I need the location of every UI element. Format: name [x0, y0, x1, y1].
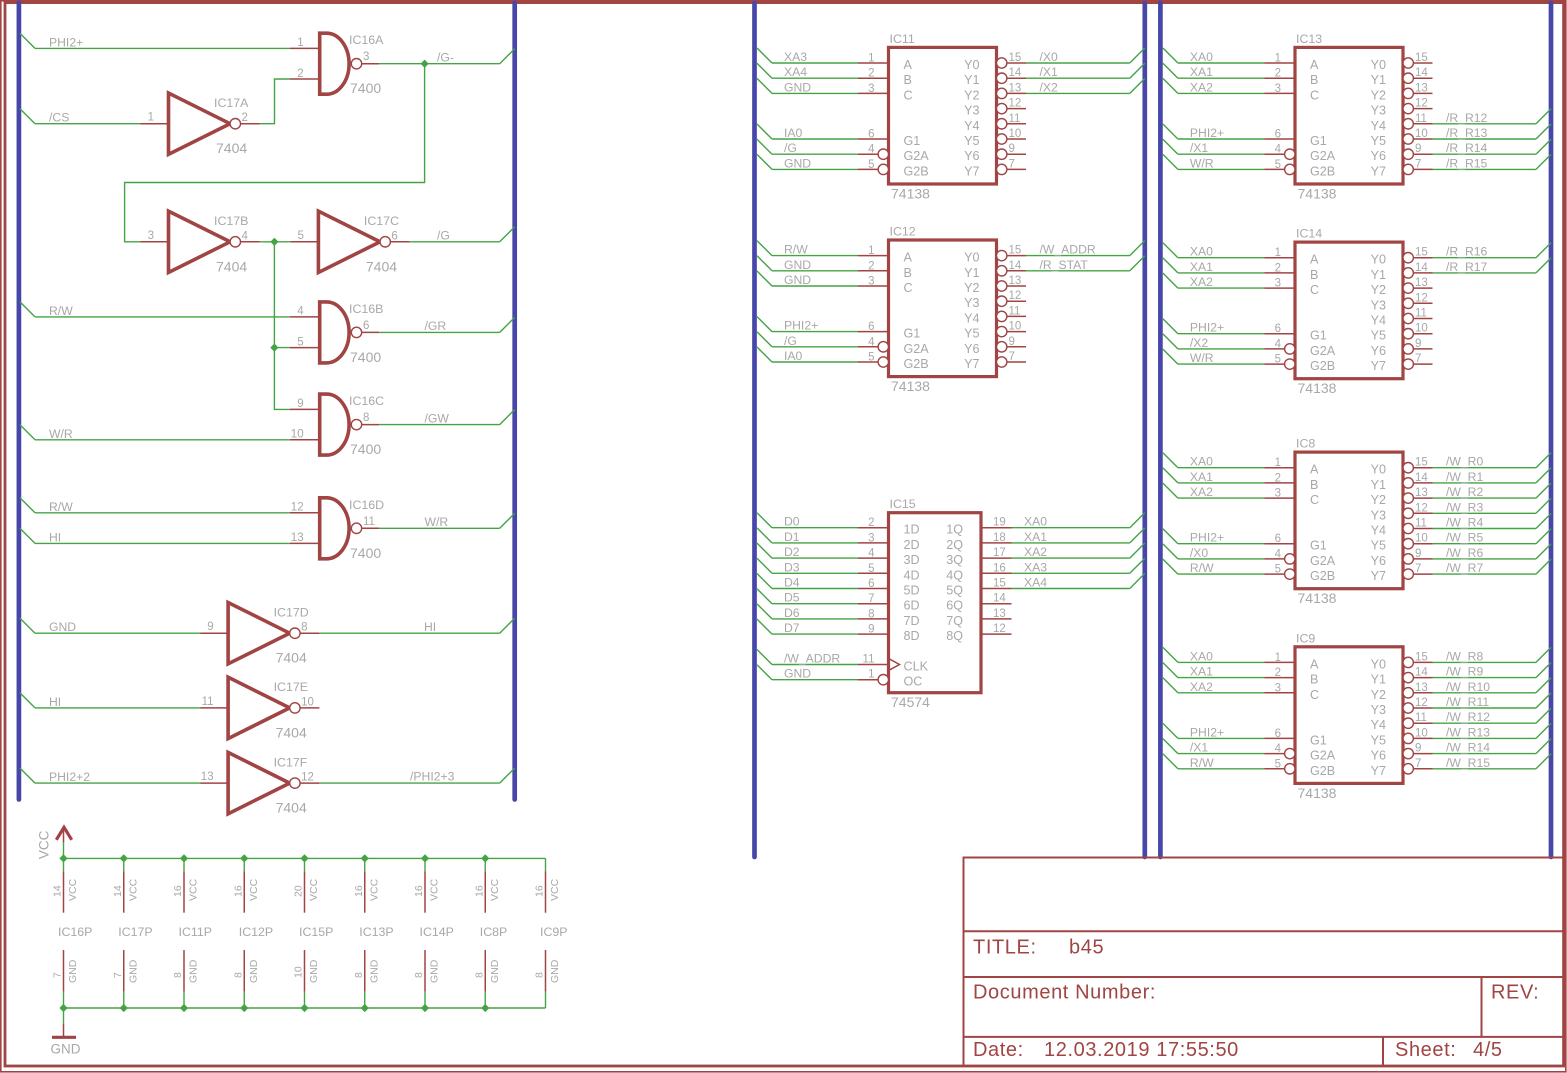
- svg-text:13: 13: [1009, 275, 1022, 287]
- IC16A pin 2: [290, 78, 320, 80]
- svg-text:10: 10: [1415, 128, 1428, 140]
- svg-text:7: 7: [1415, 158, 1421, 170]
- svg-text:GND: GND: [784, 156, 811, 170]
- IC12 pin 10 (Y5): [997, 326, 1007, 336]
- svg-text:8: 8: [413, 972, 425, 978]
- IC9 pin 10 (Y5): [1403, 733, 1413, 743]
- svg-text:9: 9: [1415, 743, 1421, 755]
- junction IC8P on VCC rail: [481, 854, 489, 862]
- junction IC15P on VCC rail: [300, 854, 308, 862]
- IC17B pin 4 (output): [241, 241, 260, 243]
- NAND gate IC16D (7400): [320, 498, 349, 559]
- svg-text:12: 12: [301, 772, 314, 784]
- svg-text:8Q: 8Q: [946, 629, 963, 643]
- svg-text:16: 16: [473, 885, 485, 897]
- svg-text:G1: G1: [1310, 733, 1327, 747]
- svg-text:4: 4: [1275, 338, 1282, 350]
- wire net /X0 to IC8 pin 4: [1163, 544, 1178, 559]
- junction IC14P on GND rail: [421, 1004, 429, 1012]
- svg-text:GND: GND: [429, 959, 441, 983]
- svg-text:IC17A: IC17A: [214, 96, 249, 110]
- wire net PHI2+ to IC13 pin 6: [1163, 124, 1178, 139]
- svg-text:13: 13: [1415, 682, 1428, 694]
- wire net XA2 from IC15 pin 17 to bus: [1012, 557, 1130, 559]
- wire net /R_R16 from IC14 pin 15 to bus: [1433, 257, 1537, 259]
- IC11 pin 5 (G2B): [858, 168, 878, 170]
- wire net PHI2+ to IC12 pin 6: [757, 317, 772, 332]
- bus B4 (middle section right rail): [1142, 3, 1147, 857]
- svg-text:7: 7: [1415, 563, 1421, 575]
- NAND gate IC16A (7400): [320, 33, 349, 94]
- wire from pin 5 junction down to IC16C pin 9: [274, 348, 290, 410]
- svg-text:IC9P: IC9P: [540, 925, 568, 939]
- wire net /W_ADDR to IC15 pin 11: [757, 650, 772, 665]
- svg-text:W/R: W/R: [1190, 351, 1214, 365]
- svg-text:G2B: G2B: [904, 357, 929, 371]
- IC IC15 74574 octal flip-flop body: [889, 513, 982, 693]
- svg-text:7404: 7404: [216, 140, 247, 156]
- svg-text:IC17E: IC17E: [274, 680, 308, 694]
- svg-text:G2A: G2A: [904, 342, 930, 356]
- wire net /W_ADDR from IC12 pin 15 to bus: [1026, 255, 1130, 257]
- svg-text:11: 11: [363, 516, 375, 528]
- svg-text:9: 9: [868, 624, 874, 636]
- svg-text:C: C: [904, 88, 913, 102]
- svg-text:12: 12: [1415, 98, 1428, 110]
- svg-text:PHI2+: PHI2+: [49, 35, 83, 49]
- svg-text:Y5: Y5: [964, 327, 979, 341]
- junction IC15P on GND rail: [300, 1004, 308, 1012]
- wire net HI from bus B1 to IC17E pin 11: [20, 693, 35, 708]
- svg-text:14: 14: [1415, 262, 1428, 274]
- junction IC12P on VCC rail: [240, 854, 248, 862]
- IC14 pin 9 (Y6): [1403, 344, 1413, 354]
- svg-text:16: 16: [232, 885, 244, 897]
- IC9 pin 4 (G2A): [1265, 753, 1285, 755]
- svg-text:11: 11: [1415, 712, 1427, 724]
- IC16A pin 1: [290, 47, 320, 49]
- wire net W/R from bus B1 to IC16C pin 10: [20, 425, 35, 440]
- svg-text:XA0: XA0: [1190, 649, 1213, 663]
- svg-text:CLK: CLK: [904, 660, 929, 674]
- svg-text:10: 10: [293, 966, 305, 978]
- svg-text:2: 2: [1275, 68, 1281, 80]
- svg-text:Y5: Y5: [1371, 134, 1386, 148]
- IC14 pin 10 (Y5): [1403, 329, 1413, 339]
- svg-text:15: 15: [993, 578, 1006, 590]
- IC17D pin 9 (input): [200, 632, 228, 634]
- svg-text:5: 5: [1275, 354, 1281, 366]
- wire net W/R to IC13 pin 5: [1163, 154, 1178, 169]
- svg-text:16: 16: [993, 562, 1006, 574]
- svg-text:Y3: Y3: [964, 104, 979, 118]
- svg-text:/W_R8: /W_R8: [1446, 649, 1483, 663]
- wire net R/W from bus B1 to IC16D pin 12: [20, 498, 35, 513]
- svg-text:74138: 74138: [891, 185, 930, 201]
- svg-text:D2: D2: [784, 545, 800, 559]
- svg-text:Y2: Y2: [1371, 688, 1386, 702]
- svg-text:XA1: XA1: [1190, 65, 1213, 79]
- svg-text:/GR: /GR: [425, 319, 447, 333]
- svg-text:7: 7: [1415, 353, 1421, 365]
- svg-text:b45: b45: [1069, 937, 1104, 959]
- svg-text:Sheet:: Sheet:: [1395, 1039, 1456, 1061]
- bus B2 (left section right rail): [512, 3, 517, 800]
- svg-text:5: 5: [868, 352, 874, 364]
- wire from IC17B output junction down to IC16B pin 5: [274, 242, 290, 348]
- svg-text:7400: 7400: [350, 349, 381, 365]
- svg-text:14: 14: [1009, 67, 1022, 79]
- svg-text:XA1: XA1: [1024, 530, 1047, 544]
- svg-text:XA4: XA4: [784, 65, 807, 79]
- svg-text:Y2: Y2: [1371, 493, 1386, 507]
- svg-text:PHI2+: PHI2+: [1190, 126, 1224, 140]
- junction on /G- net: [421, 60, 429, 68]
- junction IC17P on VCC rail: [120, 854, 128, 862]
- svg-text:7: 7: [52, 972, 64, 978]
- svg-text:/R_R13: /R_R13: [1446, 126, 1488, 140]
- svg-text:14: 14: [112, 885, 124, 897]
- IC17F pin 12 (output): [300, 782, 319, 784]
- svg-text:XA0: XA0: [1190, 50, 1213, 64]
- IC14 pin 7 (Y7): [1403, 359, 1413, 369]
- ground symbol GND: [63, 1008, 65, 1024]
- svg-text:7: 7: [1009, 351, 1015, 363]
- svg-text:W/R: W/R: [49, 427, 73, 441]
- wire VCC symbol to VCC rail: [63, 843, 65, 859]
- svg-text:/W_R10: /W_R10: [1446, 680, 1490, 694]
- svg-text:11: 11: [202, 696, 214, 708]
- IC8 pin 2 (B): [1265, 482, 1296, 484]
- svg-text:17: 17: [993, 547, 1006, 559]
- svg-text:/W_R0: /W_R0: [1446, 455, 1483, 469]
- svg-text:D3: D3: [784, 560, 800, 574]
- IC17F pin 13 (input): [200, 782, 228, 784]
- svg-text:8: 8: [473, 972, 485, 978]
- wire net GND to IC11 pin 5: [757, 154, 772, 169]
- svg-text:7: 7: [1415, 758, 1421, 770]
- svg-text:G2B: G2B: [1310, 164, 1335, 178]
- svg-text:/R_R15: /R_R15: [1446, 156, 1488, 170]
- svg-text:Y0: Y0: [1371, 463, 1386, 477]
- junction IC11P on GND rail: [180, 1004, 188, 1012]
- svg-text:5: 5: [297, 230, 303, 242]
- wire net /X1 to IC9 pin 4: [1163, 739, 1178, 754]
- wire net /W_R13 from IC9 pin 10 to bus: [1433, 737, 1537, 739]
- svg-text:12: 12: [993, 623, 1006, 635]
- svg-text:/G: /G: [437, 228, 450, 242]
- inverter gate IC17B (7404): [169, 211, 231, 272]
- svg-text:PHI2+: PHI2+: [784, 319, 818, 333]
- wire net D0 to IC15 pin 2: [757, 513, 772, 528]
- svg-text:Y1: Y1: [1371, 673, 1386, 687]
- IC8 pin 13 (Y2): [1403, 493, 1413, 503]
- svg-text:TITLE:: TITLE:: [973, 937, 1037, 959]
- wire net /W_R7 from IC8 pin 7 to bus: [1433, 573, 1537, 575]
- svg-text:XA2: XA2: [1190, 275, 1213, 289]
- IC11 pin 15 (Y0): [997, 58, 1007, 68]
- IC15 pin 9 (8D): [858, 633, 889, 635]
- svg-text:Y6: Y6: [964, 149, 979, 163]
- IC14 pin 15 (Y0): [1403, 253, 1413, 263]
- IC9 pin 7 (Y7): [1403, 764, 1413, 774]
- svg-text:2: 2: [868, 68, 874, 80]
- svg-text:Y0: Y0: [1371, 58, 1386, 72]
- svg-text:12: 12: [1415, 502, 1428, 514]
- svg-text:A: A: [1310, 463, 1319, 477]
- svg-text:4: 4: [297, 306, 304, 318]
- svg-text:Y7: Y7: [1371, 359, 1386, 373]
- svg-text:C: C: [904, 281, 913, 295]
- IC9 pin 3 (C): [1265, 692, 1296, 694]
- svg-text:VCC: VCC: [308, 878, 320, 901]
- wire net /X0 from IC11 pin 15 to bus: [1026, 62, 1130, 64]
- wire net XA2 to IC9 pin 3: [1163, 678, 1178, 693]
- wire net /CS from bus B1 to IC17A pin 1: [20, 109, 35, 124]
- IC15 pin 1 (OC): [858, 679, 878, 681]
- svg-text:9: 9: [1009, 143, 1015, 155]
- svg-text:1D: 1D: [904, 523, 920, 537]
- svg-text:C: C: [1310, 88, 1319, 102]
- svg-text:C: C: [1310, 688, 1319, 702]
- svg-text:15: 15: [1415, 457, 1428, 469]
- IC13 pin 15 (Y0): [1403, 58, 1413, 68]
- wire net XA0 to IC14 pin 1: [1163, 243, 1178, 258]
- svg-text:1: 1: [868, 53, 874, 65]
- svg-text:74138: 74138: [1298, 380, 1337, 396]
- IC11 pin 7 (Y7): [997, 164, 1007, 174]
- power symbol VCC (arrow): [56, 827, 71, 840]
- IC IC11 74138 decoder body: [889, 47, 997, 184]
- wire net PHI2+ to IC8 pin 6: [1163, 529, 1178, 544]
- wire IC17B output node to IC17C pin 5: [260, 241, 291, 243]
- IC16D pin 11 (output): [362, 527, 380, 529]
- IC11 pin 2 (B): [858, 77, 889, 79]
- wire net /R_R14 from IC13 pin 9 to bus: [1433, 153, 1537, 155]
- svg-text:7D: 7D: [904, 614, 920, 628]
- IC16D pin 13: [290, 542, 320, 544]
- svg-text:XA0: XA0: [1190, 245, 1213, 259]
- svg-text:GND: GND: [784, 258, 811, 272]
- svg-text:GND: GND: [67, 959, 79, 983]
- IC12 pin 9 (Y6): [997, 342, 1007, 352]
- wire net D2 to IC15 pin 4: [757, 543, 772, 558]
- IC13 pin 2 (B): [1265, 77, 1296, 79]
- svg-text:XA1: XA1: [1190, 665, 1213, 679]
- svg-text:VCC: VCC: [489, 878, 501, 901]
- svg-text:14: 14: [1415, 667, 1428, 679]
- IC14 pin 3 (C): [1265, 287, 1296, 289]
- IC16C pin 8 (output): [362, 424, 380, 426]
- svg-text:Y0: Y0: [1371, 253, 1386, 267]
- svg-text:12: 12: [1415, 292, 1428, 304]
- wire net GND from bus B1 to IC17D pin 9: [20, 618, 35, 633]
- IC17A pin 2 (output): [241, 123, 260, 125]
- svg-text:3: 3: [1275, 682, 1281, 694]
- svg-text:/X1: /X1: [1040, 65, 1059, 79]
- svg-text:IC11P: IC11P: [179, 925, 213, 939]
- power pin IC14P GND (pin 8): [424, 950, 426, 992]
- svg-text:/W_R14: /W_R14: [1446, 741, 1490, 755]
- power pin IC13P VCC (pin 16): [364, 858, 366, 871]
- svg-text:G2A: G2A: [1310, 344, 1336, 358]
- svg-text:12: 12: [1009, 290, 1022, 302]
- svg-text:5D: 5D: [904, 584, 920, 598]
- IC14 pin 6 (G1): [1265, 333, 1296, 335]
- IC12 pin 13 (Y2): [997, 281, 1007, 291]
- IC12 pin 11 (Y4): [997, 311, 1007, 321]
- wire net D1 to IC15 pin 3: [757, 528, 772, 543]
- IC9 pin 5 (G2B): [1265, 768, 1285, 770]
- svg-text:13: 13: [291, 532, 304, 544]
- svg-text:11: 11: [863, 654, 875, 666]
- svg-text:Y5: Y5: [1371, 733, 1386, 747]
- svg-text:3: 3: [1275, 488, 1281, 500]
- IC12 pin 4 (G2A): [858, 346, 878, 348]
- wire net /W_R4 from IC8 pin 11 to bus: [1433, 528, 1537, 530]
- wire net /X1 from IC11 pin 14 to bus: [1026, 77, 1130, 79]
- svg-text:G2A: G2A: [1310, 554, 1336, 568]
- svg-text:G2B: G2B: [904, 164, 929, 178]
- wire net PHI2+2 from bus B1 to IC17F pin 13: [20, 768, 35, 783]
- IC15 pin 16 (4Q): [981, 572, 1012, 574]
- wire net /PHI2+3 from IC17F output to bus B2: [319, 782, 499, 784]
- title block row divider 2: [964, 976, 1564, 978]
- IC17C pin 6 (output): [390, 241, 409, 243]
- svg-text:3: 3: [1275, 278, 1281, 290]
- svg-text:/W_R3: /W_R3: [1446, 500, 1483, 514]
- svg-text:5: 5: [868, 159, 874, 171]
- svg-text:4: 4: [1275, 743, 1282, 755]
- IC15 pin 3 (2D): [858, 542, 889, 544]
- svg-text:Y1: Y1: [964, 73, 979, 87]
- wire net PHI2+ to IC9 pin 6: [1163, 723, 1178, 738]
- svg-text:2: 2: [1275, 262, 1281, 274]
- bus B1 (left section left rail): [17, 3, 22, 800]
- svg-text:11: 11: [1415, 518, 1427, 530]
- svg-text:G1: G1: [1310, 329, 1327, 343]
- wire net HI from bus B1 to IC16D pin 13: [20, 528, 35, 543]
- svg-text:14: 14: [1415, 67, 1428, 79]
- svg-text:2D: 2D: [904, 538, 920, 552]
- wire net XA3 from IC15 pin 16 to bus: [1012, 572, 1130, 574]
- svg-text:A: A: [904, 251, 913, 265]
- svg-text:8: 8: [363, 412, 369, 424]
- NAND gate IC16C (7400): [320, 394, 349, 455]
- svg-text:10: 10: [1009, 321, 1022, 333]
- IC12 pin 7 (Y7): [997, 357, 1007, 367]
- svg-text:Y4: Y4: [1371, 718, 1386, 732]
- svg-text:3: 3: [363, 51, 369, 63]
- wire net D5 to IC15 pin 7: [757, 589, 772, 604]
- inverter gate IC17C (7404): [318, 211, 380, 272]
- svg-text:XA0: XA0: [1190, 455, 1213, 469]
- svg-text:2: 2: [1275, 667, 1281, 679]
- svg-text:Y7: Y7: [1371, 569, 1386, 583]
- svg-text:W/R: W/R: [425, 515, 449, 529]
- svg-text:10: 10: [1415, 323, 1428, 335]
- IC14 pin 2 (B): [1265, 272, 1296, 274]
- wire net R/W from bus B1 to IC16B pin 4: [20, 302, 35, 317]
- svg-text:GND: GND: [549, 959, 561, 983]
- junction IC11P on VCC rail: [180, 854, 188, 862]
- svg-text:8: 8: [868, 608, 874, 620]
- wire net R/W to IC8 pin 5: [1163, 559, 1178, 574]
- wire net XA0 to IC8 pin 1: [1163, 453, 1178, 468]
- svg-text:Y6: Y6: [964, 342, 979, 356]
- svg-text:IC12: IC12: [890, 225, 916, 239]
- title block outline: [964, 858, 1564, 1067]
- svg-text:7400: 7400: [350, 80, 381, 96]
- svg-text:IC13P: IC13P: [359, 925, 393, 939]
- wire net XA0 to IC9 pin 1: [1163, 647, 1178, 662]
- IC13 pin 6 (G1): [1265, 138, 1296, 140]
- svg-text:15: 15: [1415, 52, 1428, 64]
- IC15 pin 2 (1D): [858, 527, 889, 529]
- svg-text:VCC: VCC: [127, 878, 139, 901]
- svg-text:G2A: G2A: [1310, 749, 1336, 763]
- svg-text:/R_R12: /R_R12: [1446, 111, 1488, 125]
- svg-text:16: 16: [534, 885, 546, 897]
- svg-text:/X1: /X1: [1190, 141, 1209, 155]
- svg-text:4: 4: [1275, 548, 1282, 560]
- svg-text:Y1: Y1: [1371, 73, 1386, 87]
- svg-text:/G: /G: [784, 334, 797, 348]
- svg-text:12: 12: [291, 502, 304, 514]
- svg-text:6: 6: [363, 320, 369, 332]
- svg-text:B: B: [904, 266, 912, 280]
- svg-text:1Q: 1Q: [946, 523, 963, 537]
- svg-text:9: 9: [1009, 336, 1015, 348]
- svg-text:Y3: Y3: [1371, 298, 1386, 312]
- svg-text:GND: GND: [248, 959, 260, 983]
- wire net XA4 to IC11 pin 2: [757, 63, 772, 78]
- svg-text:16: 16: [413, 885, 425, 897]
- IC13 pin 3 (C): [1265, 92, 1296, 94]
- svg-text:XA0: XA0: [1024, 515, 1047, 529]
- svg-text:6Q: 6Q: [946, 599, 963, 613]
- IC15 pin 13 (7Q): [981, 618, 1012, 620]
- IC15 pin 4 (3D): [858, 557, 889, 559]
- svg-text:B: B: [904, 73, 912, 87]
- svg-text:GND: GND: [784, 273, 811, 287]
- svg-text:Y7: Y7: [1371, 764, 1386, 778]
- IC11 pin 4 (G2A): [858, 153, 878, 155]
- wire net XA1 to IC8 pin 2: [1163, 468, 1178, 483]
- svg-text:IC16B: IC16B: [349, 302, 383, 316]
- svg-text:HI: HI: [49, 530, 61, 544]
- svg-text:5: 5: [1275, 758, 1281, 770]
- svg-text:13: 13: [1415, 82, 1428, 94]
- wire net /W_R6 from IC8 pin 9 to bus: [1433, 558, 1537, 560]
- power pin IC8P GND (pin 8): [484, 950, 486, 992]
- svg-text:IC8: IC8: [1296, 437, 1315, 451]
- IC17E pin 10 (output): [300, 707, 319, 709]
- svg-text:IC16C: IC16C: [349, 394, 384, 408]
- svg-text:Y3: Y3: [1371, 703, 1386, 717]
- svg-text:/W_R6: /W_R6: [1446, 546, 1483, 560]
- svg-text:PHI2+2: PHI2+2: [49, 770, 90, 784]
- IC8 pin 14 (Y1): [1403, 478, 1413, 488]
- title block row divider 3: [964, 1036, 1564, 1038]
- svg-text:Y2: Y2: [1371, 88, 1386, 102]
- inverter gate IC17F (7404): [228, 752, 290, 813]
- svg-text:Date:: Date:: [973, 1039, 1024, 1061]
- svg-text:VCC: VCC: [67, 878, 79, 901]
- svg-text:9: 9: [1415, 548, 1421, 560]
- svg-text:5Q: 5Q: [946, 584, 963, 598]
- wire net IA0 to IC12 pin 5: [757, 347, 772, 362]
